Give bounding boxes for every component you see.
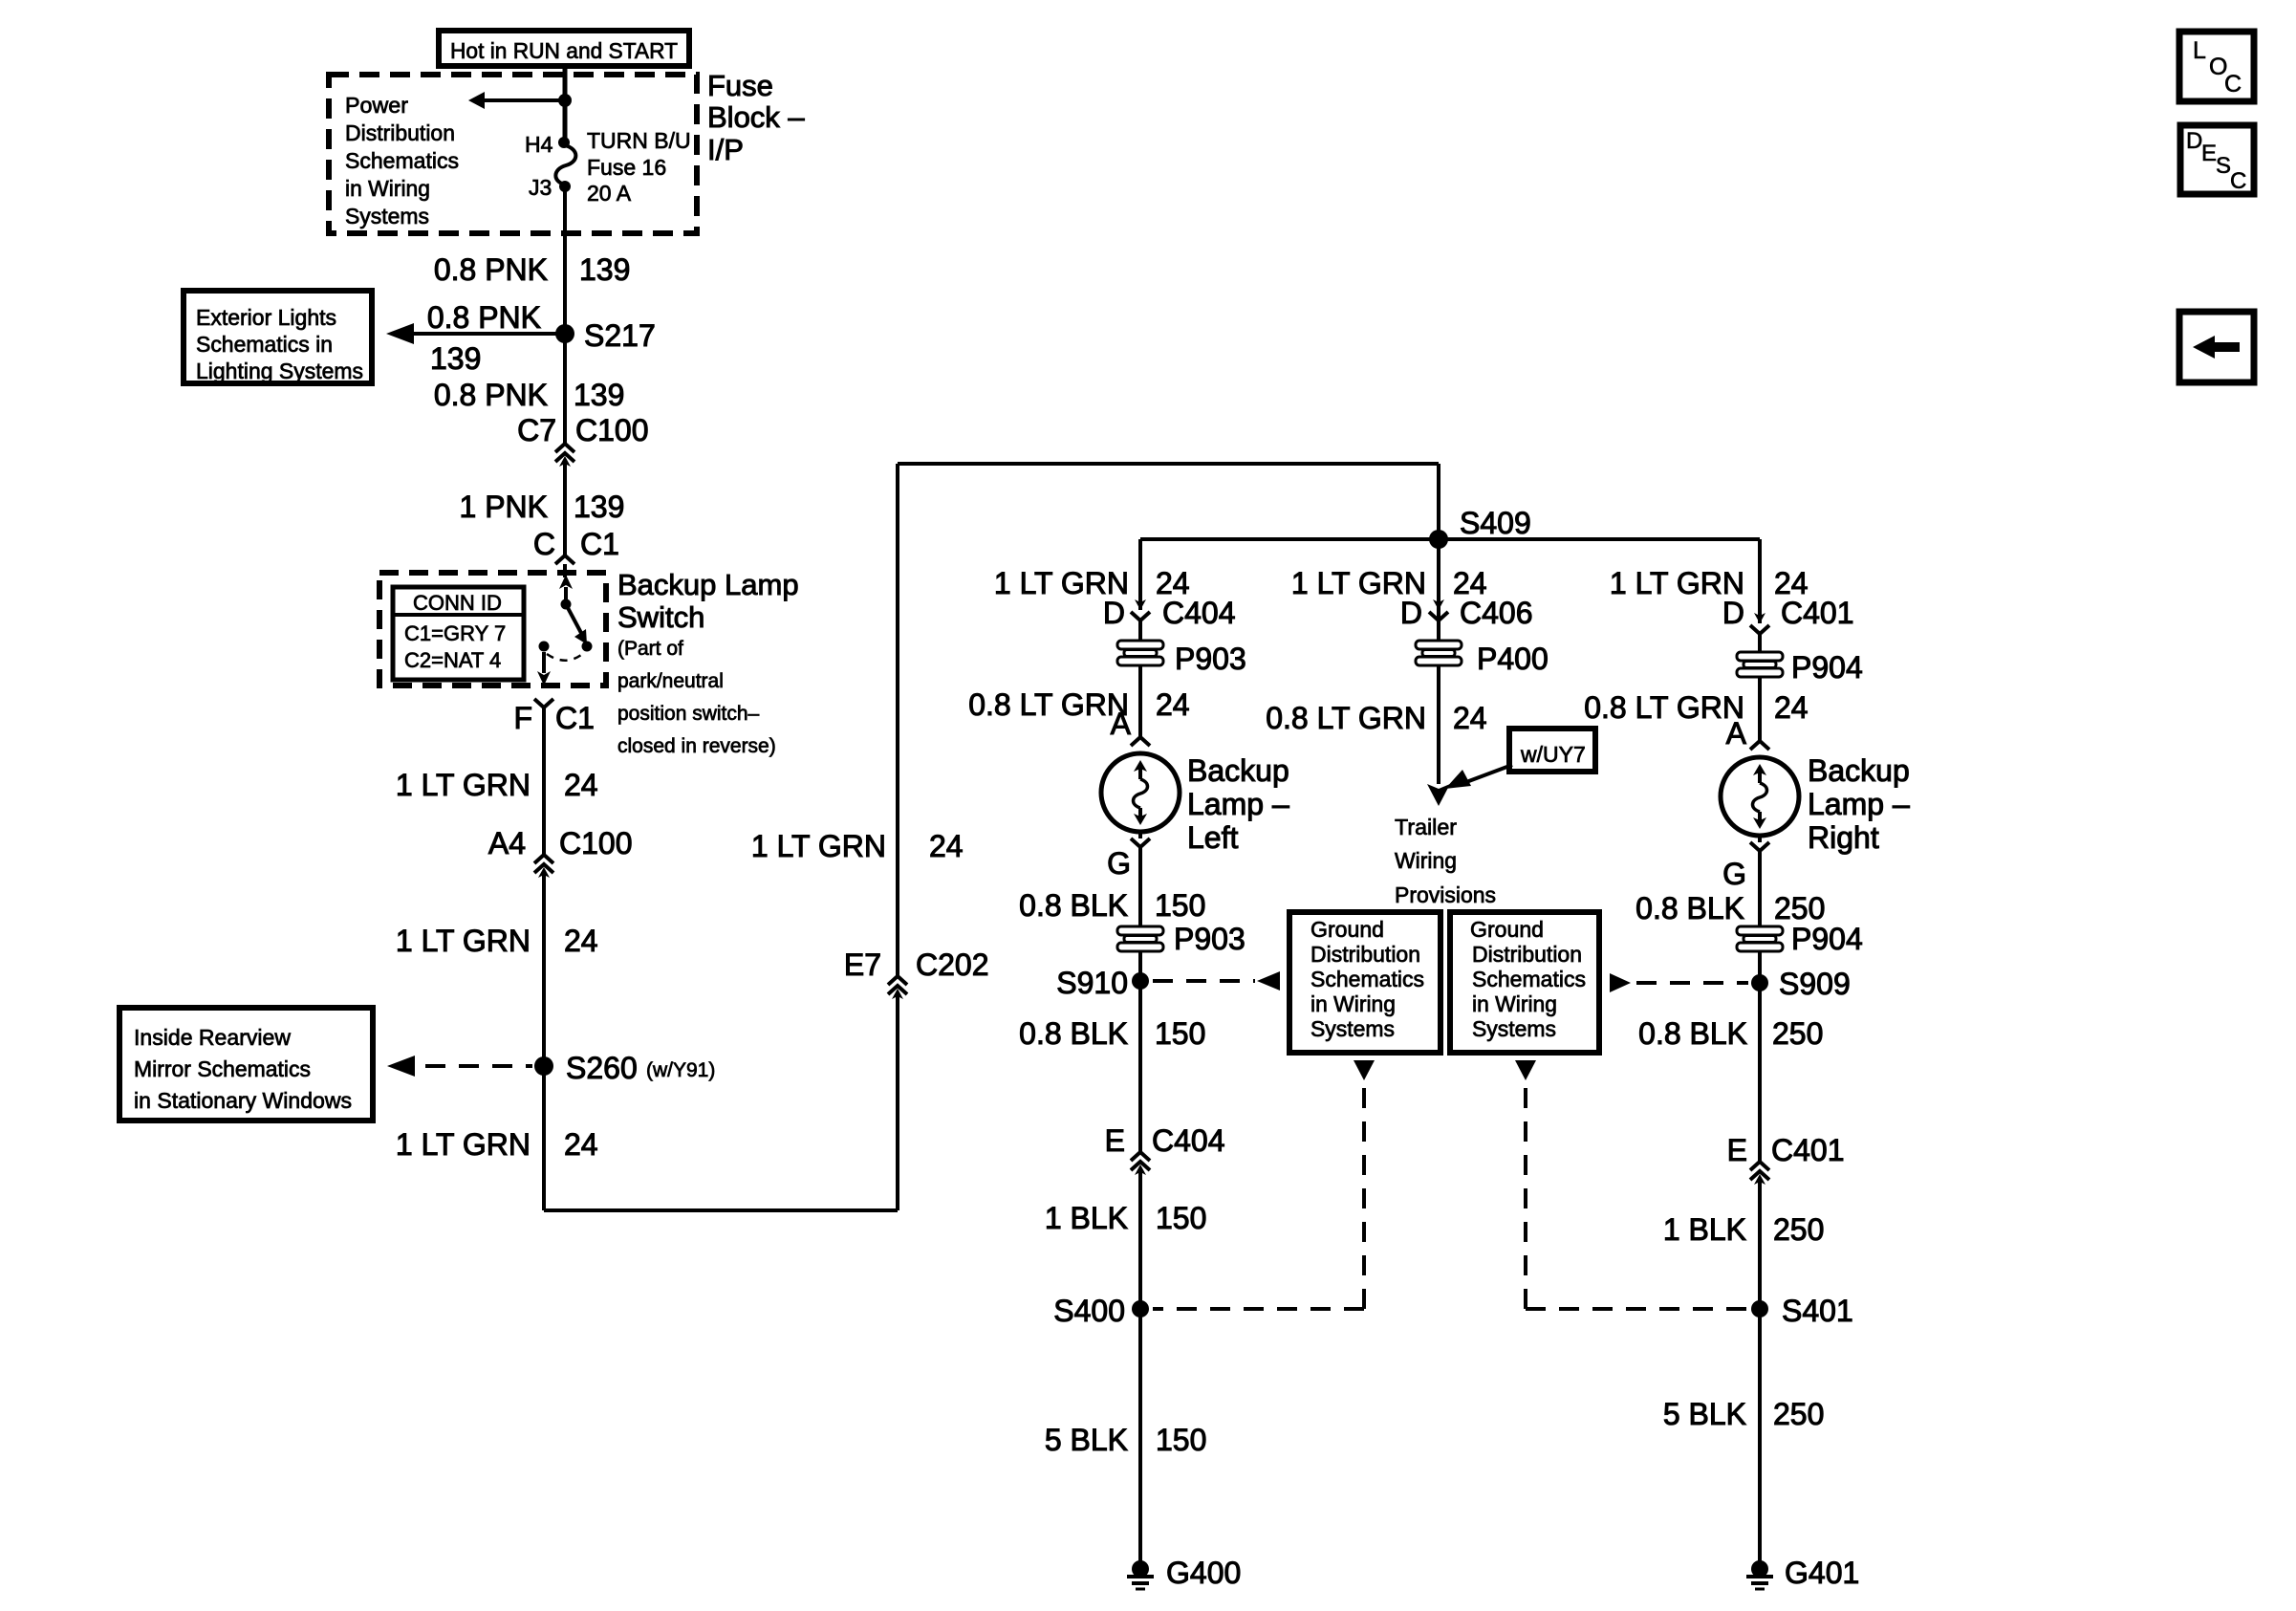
svg-text:Power: Power: [345, 93, 408, 118]
svg-text:0.8 BLK: 0.8 BLK: [1019, 1016, 1128, 1051]
svg-text:0.8 PNK: 0.8 PNK: [434, 252, 548, 287]
svg-text:E: E: [2201, 141, 2217, 166]
svg-text:A: A: [1111, 707, 1132, 741]
svg-text:S910: S910: [1056, 966, 1128, 1000]
svg-text:C404: C404: [1162, 596, 1236, 630]
svg-text:Schematics: Schematics: [1472, 967, 1586, 991]
svg-text:D: D: [1103, 596, 1125, 630]
svg-text:1 BLK: 1 BLK: [1045, 1201, 1128, 1235]
svg-text:Systems: Systems: [1472, 1016, 1556, 1041]
svg-text:Ground: Ground: [1310, 917, 1384, 942]
svg-text:0.8 PNK: 0.8 PNK: [434, 378, 548, 412]
svg-text:C401: C401: [1771, 1133, 1845, 1167]
svg-text:H4: H4: [525, 132, 553, 157]
svg-text:C: C: [533, 527, 555, 561]
svg-text:C2=NAT 4: C2=NAT 4: [404, 648, 501, 672]
svg-text:G400: G400: [1166, 1556, 1241, 1590]
svg-text:24: 24: [564, 768, 598, 802]
svg-text:E: E: [1727, 1133, 1747, 1167]
svg-text:0.8 PNK: 0.8 PNK: [427, 300, 541, 335]
svg-text:C: C: [2224, 71, 2242, 98]
svg-text:Systems: Systems: [1310, 1016, 1395, 1041]
svg-text:Switch: Switch: [617, 600, 704, 634]
svg-text:0.8 LT GRN: 0.8 LT GRN: [1266, 701, 1426, 735]
svg-text:C401: C401: [1781, 596, 1854, 630]
svg-text:24: 24: [929, 829, 964, 863]
svg-text:S400: S400: [1053, 1294, 1125, 1328]
svg-text:S409: S409: [1460, 506, 1531, 540]
svg-text:in Wiring: in Wiring: [1310, 991, 1396, 1016]
svg-text:Lamp –: Lamp –: [1808, 787, 1910, 821]
svg-text:in Stationary Windows: in Stationary Windows: [134, 1088, 352, 1113]
svg-text:TURN B/U: TURN B/U: [587, 128, 691, 153]
svg-text:150: 150: [1156, 1201, 1206, 1235]
svg-text:(w/Y91): (w/Y91): [646, 1059, 715, 1081]
svg-text:P400: P400: [1477, 642, 1549, 676]
svg-text:P904: P904: [1791, 650, 1863, 685]
svg-text:Right: Right: [1808, 820, 1879, 855]
svg-text:250: 250: [1772, 1016, 1823, 1051]
svg-text:139: 139: [579, 252, 630, 287]
svg-text:1 LT GRN: 1 LT GRN: [396, 768, 531, 802]
svg-text:24: 24: [564, 1127, 598, 1162]
svg-text:Mirror Schematics: Mirror Schematics: [134, 1056, 311, 1081]
svg-text:C1: C1: [580, 527, 619, 561]
svg-text:1 LT GRN: 1 LT GRN: [396, 924, 531, 958]
svg-text:0.8 BLK: 0.8 BLK: [1638, 1016, 1747, 1051]
svg-text:24: 24: [564, 924, 598, 958]
svg-text:C100: C100: [559, 826, 633, 860]
svg-text:1 LT GRN: 1 LT GRN: [751, 829, 886, 863]
svg-text:P903: P903: [1174, 922, 1245, 956]
svg-text:250: 250: [1773, 1397, 1824, 1431]
svg-text:S: S: [2216, 153, 2231, 179]
svg-text:D: D: [1722, 596, 1744, 630]
svg-text:Ground: Ground: [1470, 917, 1544, 942]
svg-text:139: 139: [574, 490, 624, 524]
svg-text:139: 139: [574, 378, 624, 412]
svg-text:139: 139: [430, 341, 481, 376]
svg-text:S260: S260: [566, 1051, 638, 1085]
svg-text:S909: S909: [1779, 967, 1851, 1001]
svg-text:closed in reverse): closed in reverse): [617, 735, 776, 757]
svg-text:S401: S401: [1782, 1294, 1853, 1328]
svg-text:250: 250: [1773, 1212, 1824, 1247]
svg-text:Systems: Systems: [345, 204, 429, 229]
svg-text:A4: A4: [488, 826, 526, 860]
svg-text:E7: E7: [844, 947, 881, 982]
svg-text:Schematics in: Schematics in: [196, 332, 333, 357]
svg-text:24: 24: [1774, 690, 1809, 725]
svg-text:C404: C404: [1152, 1123, 1225, 1158]
svg-text:5 BLK: 5 BLK: [1663, 1397, 1746, 1431]
svg-text:Lighting Systems: Lighting Systems: [196, 359, 363, 383]
svg-text:Trailer: Trailer: [1395, 815, 1457, 839]
svg-text:Hot in RUN and START: Hot in RUN and START: [450, 38, 678, 63]
svg-text:1 BLK: 1 BLK: [1663, 1212, 1746, 1247]
svg-text:C1=GRY 7: C1=GRY 7: [404, 621, 506, 645]
svg-text:0.8 BLK: 0.8 BLK: [1019, 888, 1128, 923]
svg-text:J3: J3: [529, 175, 552, 200]
svg-text:150: 150: [1155, 1016, 1205, 1051]
svg-text:Fuse 16: Fuse 16: [587, 155, 666, 180]
svg-text:G401: G401: [1785, 1556, 1859, 1590]
svg-text:Schematics: Schematics: [345, 148, 459, 173]
svg-text:Block –: Block –: [707, 100, 805, 134]
svg-text:D: D: [1400, 596, 1422, 630]
svg-text:P904: P904: [1791, 922, 1863, 956]
svg-text:L: L: [2193, 37, 2206, 64]
svg-text:Distribution: Distribution: [345, 120, 455, 145]
svg-text:C202: C202: [916, 947, 989, 982]
svg-text:Inside Rearview: Inside Rearview: [134, 1025, 291, 1050]
svg-text:Backup: Backup: [1187, 753, 1289, 788]
svg-text:20 A: 20 A: [587, 181, 632, 206]
svg-text:1 LT GRN: 1 LT GRN: [396, 1127, 531, 1162]
svg-text:P903: P903: [1175, 642, 1246, 676]
svg-text:0.8 LT GRN: 0.8 LT GRN: [1584, 690, 1744, 725]
svg-text:24: 24: [1156, 687, 1190, 722]
svg-text:C: C: [2230, 168, 2246, 194]
svg-text:24: 24: [1453, 701, 1487, 735]
svg-text:A: A: [1726, 716, 1747, 751]
svg-text:Provisions: Provisions: [1395, 882, 1496, 907]
svg-text:Exterior Lights: Exterior Lights: [196, 305, 336, 330]
svg-text:S217: S217: [584, 318, 656, 353]
svg-text:C7: C7: [517, 413, 556, 447]
svg-text:Distribution: Distribution: [1310, 942, 1420, 967]
svg-text:C1: C1: [555, 701, 595, 735]
svg-text:CONN ID: CONN ID: [413, 591, 502, 615]
svg-text:Backup Lamp: Backup Lamp: [617, 568, 799, 601]
svg-text:in Wiring: in Wiring: [1472, 991, 1557, 1016]
svg-text:(Part of: (Part of: [617, 638, 683, 660]
svg-text:D: D: [2186, 128, 2202, 154]
svg-text:150: 150: [1156, 1423, 1206, 1457]
svg-text:0.8 BLK: 0.8 BLK: [1635, 891, 1744, 925]
svg-text:G: G: [1722, 857, 1746, 891]
svg-text:Left: Left: [1187, 820, 1238, 855]
svg-text:F: F: [513, 701, 532, 735]
svg-text:C100: C100: [575, 413, 649, 447]
svg-text:Schematics: Schematics: [1310, 967, 1424, 991]
svg-text:C406: C406: [1460, 596, 1533, 630]
svg-text:I/P: I/P: [707, 133, 744, 166]
svg-text:0.8 LT GRN: 0.8 LT GRN: [968, 687, 1129, 722]
svg-text:position switch–: position switch–: [617, 703, 760, 725]
svg-text:Lamp –: Lamp –: [1187, 787, 1289, 821]
svg-text:park/neutral: park/neutral: [617, 670, 724, 692]
svg-text:250: 250: [1774, 891, 1825, 925]
svg-text:Wiring: Wiring: [1395, 848, 1457, 873]
svg-text:Backup: Backup: [1808, 753, 1910, 788]
svg-text:5 BLK: 5 BLK: [1045, 1423, 1128, 1457]
svg-text:1 PNK: 1 PNK: [460, 490, 548, 524]
svg-text:w/UY7: w/UY7: [1520, 742, 1586, 767]
svg-text:150: 150: [1155, 888, 1205, 923]
svg-text:Distribution: Distribution: [1472, 942, 1582, 967]
svg-text:E: E: [1105, 1123, 1125, 1158]
svg-text:G: G: [1107, 846, 1131, 881]
svg-text:in Wiring: in Wiring: [345, 176, 430, 201]
svg-text:Fuse: Fuse: [707, 69, 773, 102]
